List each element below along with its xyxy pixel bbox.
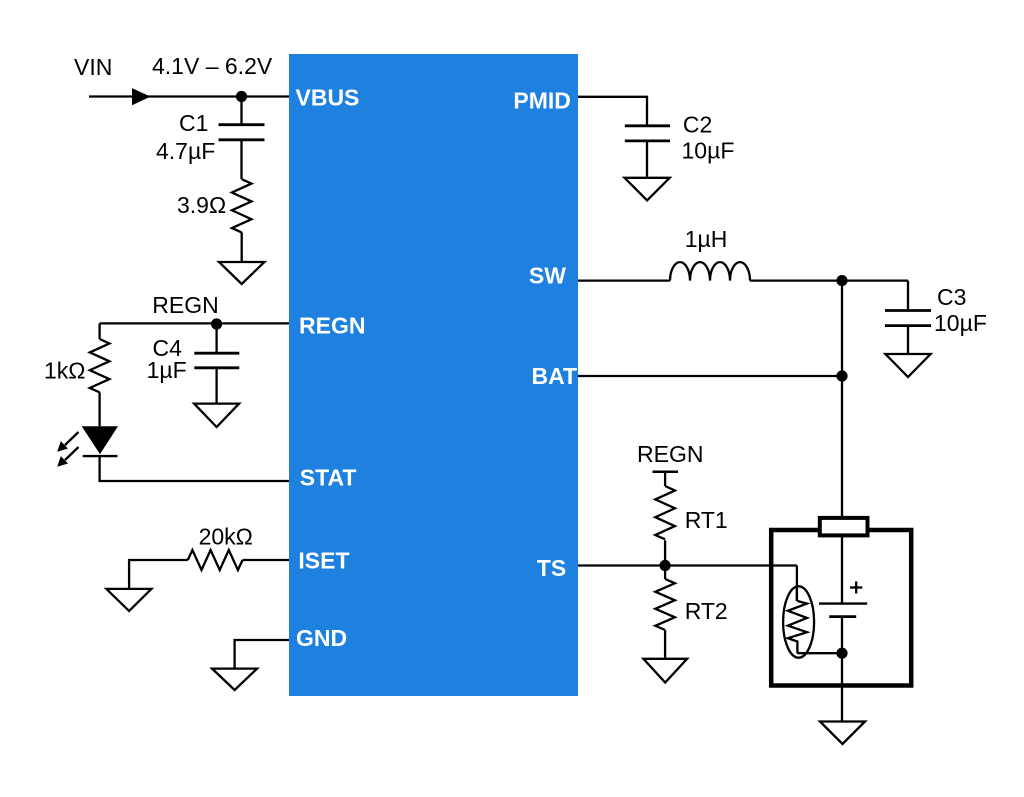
wire thermistor to battery minus [797,652,842,654]
svg-text:10µF: 10µF [934,310,987,336]
wire RT1 to TS [664,540,666,579]
wire R3.9 to ground [241,232,243,262]
LED arrow 2 [57,447,78,467]
ground (ISET) [106,589,151,611]
svg-text:REGN: REGN [152,292,218,318]
resistor 20k [188,550,243,570]
capacitor C1 [219,125,265,140]
svg-text:VIN: VIN [74,54,112,80]
svg-text:VBUS: VBUS [296,85,360,111]
wire TS [578,564,797,566]
LED cathode bar [83,455,118,457]
svg-text:C1: C1 [179,110,208,136]
capacitor C4 [194,353,239,368]
svg-text:SW: SW [529,263,566,289]
svg-text:ISET: ISET [298,548,349,574]
capacitor C3 [885,311,931,326]
resistor RT2 [655,579,675,630]
wire VBUS node to C1 [240,97,242,125]
wire fuse to battery plus [841,535,843,603]
battery plus sign [850,581,862,593]
svg-text:4.1V – 6.2V: 4.1V – 6.2V [152,53,273,79]
thermistor zigzag [788,601,807,653]
wire REGN to 1k resistor [98,323,100,339]
wire C3 to ground [907,326,909,354]
node junction REGN/C4 [211,318,222,329]
node junction SW/BAT [836,275,847,286]
wire SW to inductor [578,279,670,281]
IC U1 (charger IC body) [289,54,578,696]
wire C4 to ground [215,368,217,404]
wire LED to STAT [100,456,289,481]
wire C1 to R 3.9 [240,140,242,179]
svg-text:TS: TS [537,555,566,581]
wire inductor to C3 [750,279,908,281]
thermistor lead top [796,586,798,601]
LED D1 [82,426,118,454]
ground (3.9 ohm) [219,262,264,284]
wire PMID to C2 [578,97,647,126]
ground (battery) [820,722,865,745]
svg-text:STAT: STAT [300,465,357,491]
svg-text:C3: C3 [937,284,966,310]
svg-text:1kΩ: 1kΩ [44,358,86,384]
REGN rail stub [653,470,679,473]
resistor 3.9ohm [232,179,252,232]
input arrowhead [132,88,151,105]
svg-text:REGN: REGN [299,313,365,339]
svg-text:20kΩ: 20kΩ [199,523,253,549]
node junction battery minus / thermistor [836,648,847,659]
wire TS into pack [796,566,798,602]
wire BAT [578,375,842,377]
wire RT2 to ground [664,630,666,659]
LED arrow 1 [57,432,78,452]
battery cell plate long [819,602,867,604]
svg-text:BAT: BAT [532,363,578,389]
svg-text:RT1: RT1 [685,507,728,533]
wire stub to RT1 [664,472,666,486]
wire C2 to ground [646,141,648,178]
node junction TS [660,560,671,571]
capacitor C2 [625,126,670,141]
node junction VBUS/C1 [236,91,247,102]
svg-text:10µF: 10µF [682,137,735,163]
resistor 1k [90,339,110,392]
fuse element [820,518,868,536]
wire 20k to ISET pin [243,559,289,561]
svg-text:3.9Ω: 3.9Ω [177,192,226,218]
resistor RT1 [655,486,675,539]
node junction BAT [836,370,847,381]
ground (GND pin) [212,669,257,690]
inductor 1uH [670,262,750,281]
wire SW node down to battery [841,281,843,518]
wire ISET left to ground bend [129,560,188,589]
wire REGN pin [100,322,289,324]
battery pack box [771,530,911,686]
thermistor ellipse [783,586,814,657]
svg-text:1µH: 1µH [685,226,728,252]
svg-text:RT2: RT2 [685,598,728,624]
wire GND pin [235,640,289,669]
svg-text:4.7µF: 4.7µF [156,138,215,164]
svg-text:1µF: 1µF [147,357,187,383]
battery cell plate short [829,615,856,618]
wire 1k to LED [98,392,100,426]
wire to C3 [907,281,909,311]
ground (C4) [194,404,239,427]
ground (RT2) [643,659,687,683]
wire VIN to VBUS [89,95,289,97]
ground (C3) [885,354,930,377]
ground (C2) [625,178,670,201]
svg-text:C2: C2 [683,112,712,138]
wire battery minus down [841,617,843,722]
svg-text:REGN: REGN [637,441,703,467]
svg-text:GND: GND [296,625,347,651]
wire REGN node to C4 [215,323,217,353]
svg-text:PMID: PMID [513,87,571,113]
